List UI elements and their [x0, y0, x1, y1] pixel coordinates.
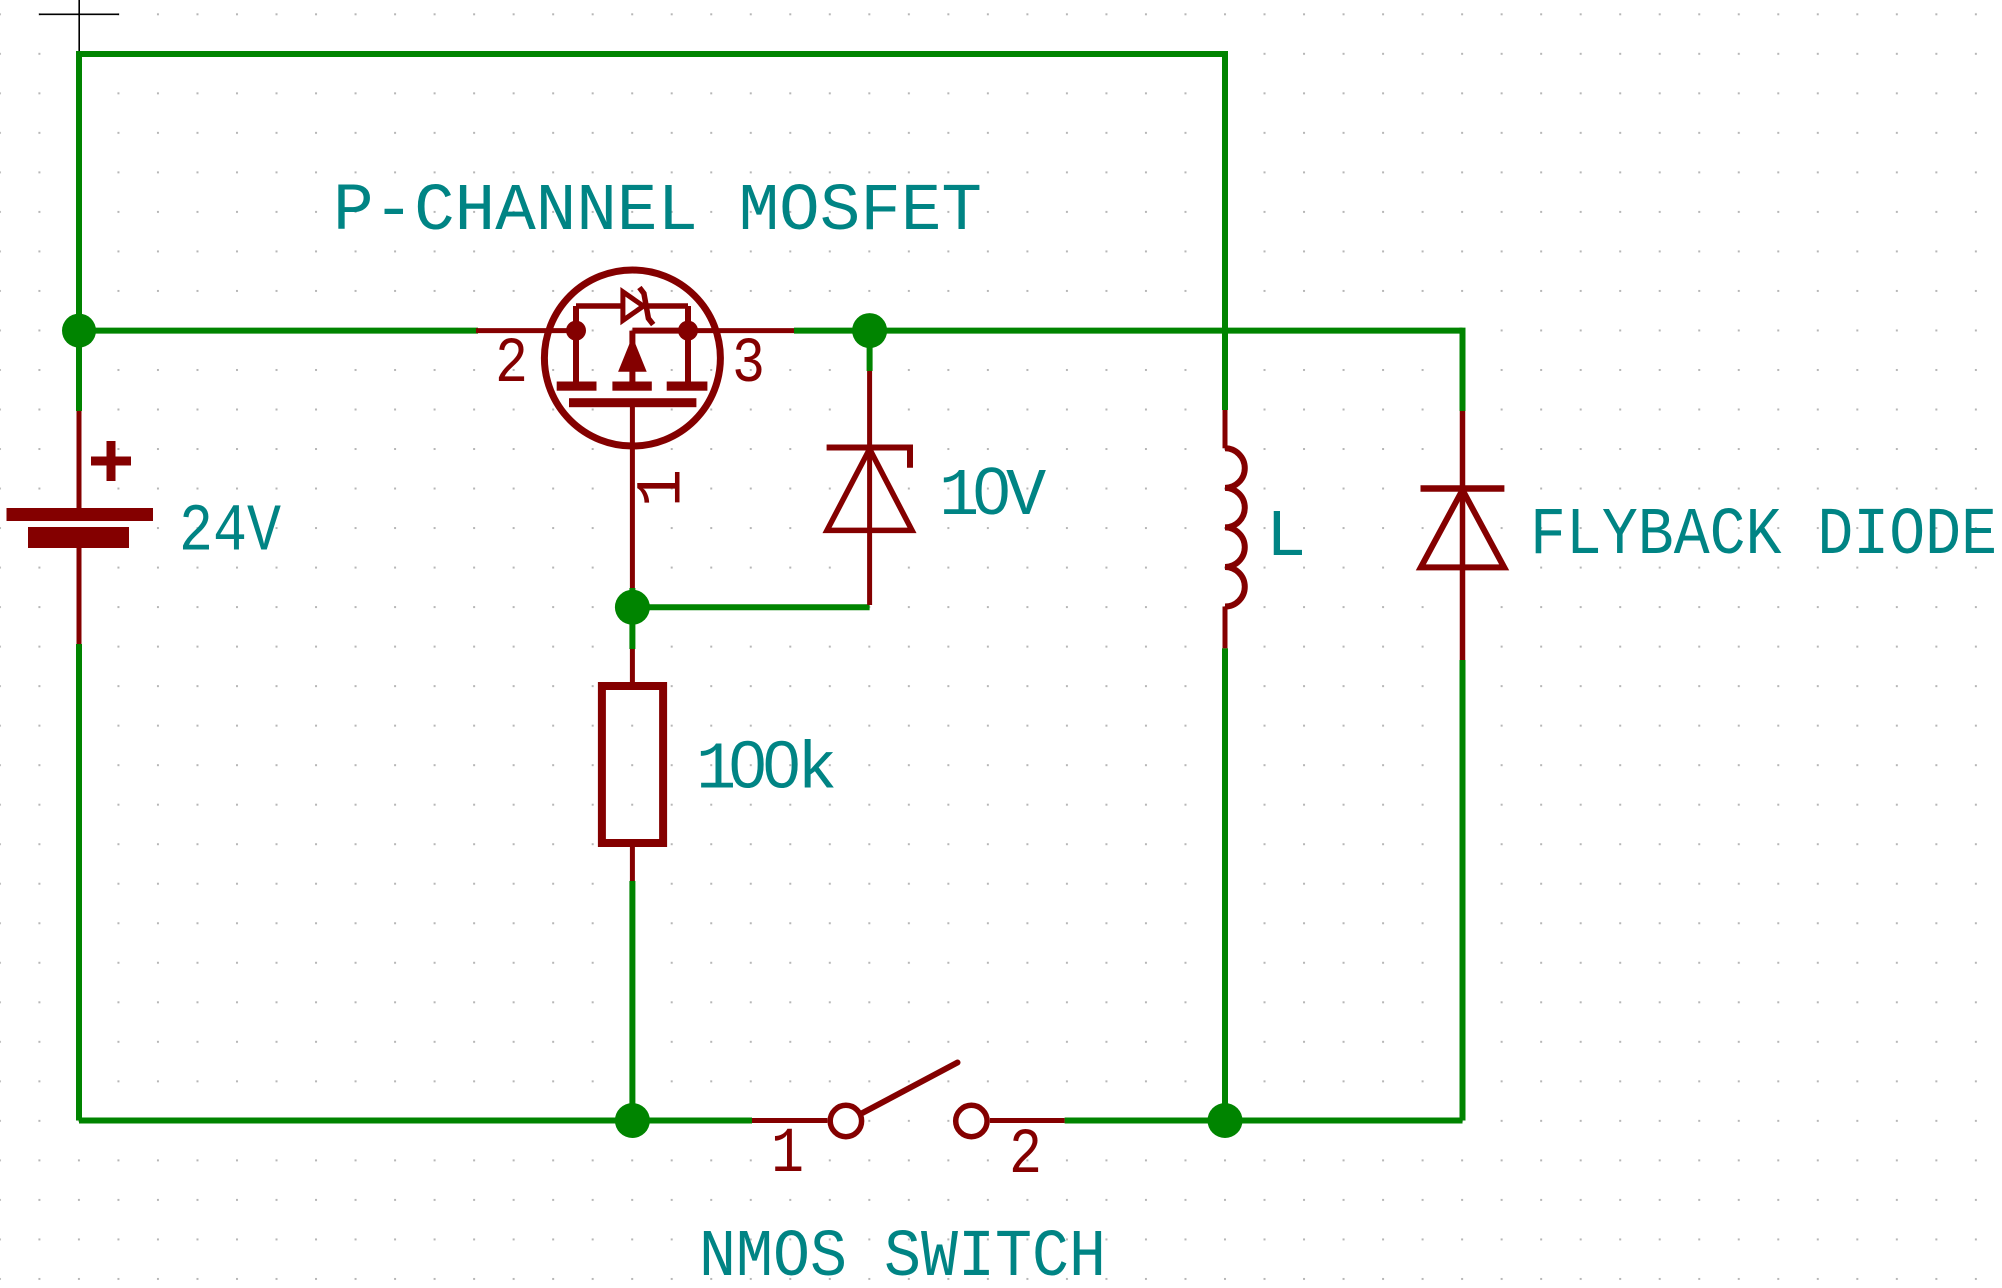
junction bottom-right node	[1208, 1103, 1243, 1138]
svg-text:24V: 24V	[179, 495, 281, 571]
wire gate bottom stub	[629, 588, 635, 607]
svg-text:1: 1	[628, 469, 700, 507]
wire flyback top drop	[1460, 328, 1466, 411]
svg-text:3: 3	[732, 329, 765, 401]
svg-text:10V: 10V	[939, 454, 1046, 535]
wire top rail	[79, 51, 1225, 57]
wire inductor top drop	[1222, 51, 1228, 410]
junction zener-main node	[852, 313, 887, 348]
wire zener top stub	[867, 331, 873, 371]
svg-text:L: L	[1266, 500, 1306, 576]
svg-text:2: 2	[495, 329, 528, 401]
wire left rail upper	[76, 51, 82, 411]
svg-text:1: 1	[771, 1119, 804, 1191]
wire resistor bottom to switch node	[629, 881, 635, 1121]
resistor pin bottom	[630, 843, 635, 881]
battery BT1 24V	[7, 411, 154, 644]
svg-text:100k: 100k	[696, 728, 837, 809]
wire bottom left	[79, 1118, 752, 1124]
wire main left (battery to MOSFET pin 2)	[79, 328, 478, 334]
flyback diode D2	[1421, 411, 1505, 660]
zener diode D1 10V	[827, 371, 912, 605]
junction gate node	[615, 590, 650, 625]
svg-text:P-CHANNEL MOSFET: P-CHANNEL MOSFET	[333, 174, 982, 250]
switch SW1 (NMOS SWITCH)	[752, 1063, 1065, 1137]
sheet origin crosshair	[39, 0, 119, 57]
svg-text:NMOS SWITCH: NMOS SWITCH	[699, 1220, 1106, 1288]
wire bottom right	[1065, 1118, 1463, 1124]
inductor L1	[1225, 410, 1245, 648]
junction bottom-left switch node	[615, 1103, 650, 1138]
wire left rail lower	[76, 644, 82, 1121]
svg-text:2: 2	[1009, 1120, 1042, 1192]
junction battery-main node	[62, 314, 96, 348]
wire resistor top stub	[629, 607, 635, 649]
resistor pin top	[630, 649, 635, 686]
p-channel MOSFET Q1	[476, 270, 794, 588]
resistor R1 100k	[602, 686, 663, 843]
wire gate node to zener bottom	[632, 604, 869, 610]
svg-text:FLYBACK DIODE: FLYBACK DIODE	[1530, 498, 1997, 574]
wire inductor bottom	[1222, 648, 1228, 1120]
wire flyback bottom	[1460, 660, 1466, 1121]
wire main right (MOSFET pin 3 to flyback corner)	[794, 328, 1463, 334]
